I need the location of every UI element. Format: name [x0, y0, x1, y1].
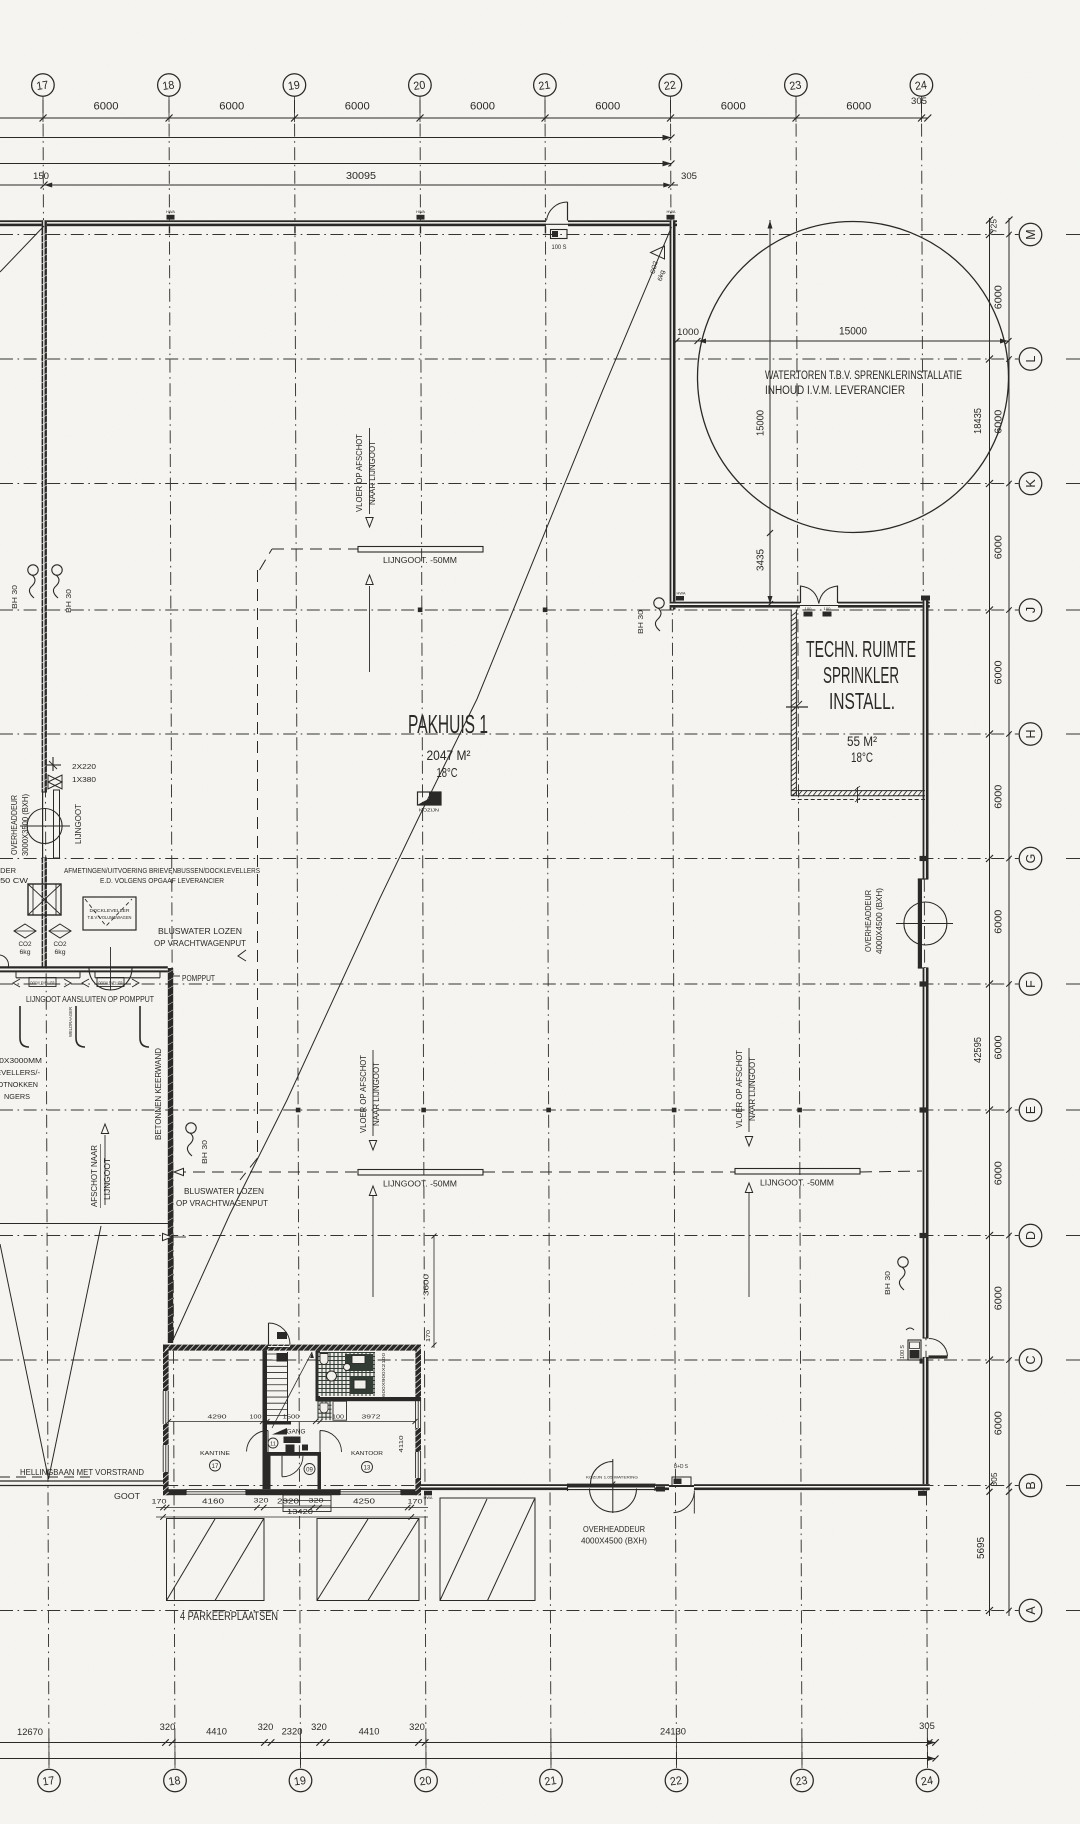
svg-text:2047 M²: 2047 M²: [427, 747, 471, 763]
interior wall kantine east: [263, 1351, 268, 1490]
left facade wall on column 17 (lower segment): [42, 858, 47, 968]
svg-text:VLOER OP AFSCHOT: VLOER OP AFSCHOT: [355, 434, 364, 512]
extension tick col 21 under top dim: [544, 97, 546, 123]
svg-text:6000: 6000: [595, 101, 620, 113]
grid row line F: [0, 983, 1019, 985]
toilet fixtures: [327, 1371, 337, 1381]
sprinkler room insulation dash under south wall: [791, 799, 925, 801]
svg-text:LIJNGOOT. -50MM: LIJNGOOT. -50MM: [383, 555, 457, 565]
svg-text:19: 19: [287, 79, 301, 93]
svg-text:150: 150: [33, 171, 49, 182]
svg-text:A: A: [1024, 1606, 1038, 1615]
svg-text:4160: 4160: [202, 1499, 224, 1506]
grid column line 22: [671, 100, 677, 1768]
column marks row J: [418, 608, 423, 613]
corner diagonal top-left: [0, 226, 44, 272]
BH 30 hook near right wall row D: [898, 1257, 908, 1267]
svg-text:DOCKLEVELLER: DOCKLEVELLER: [31, 980, 55, 985]
AFSCHOT NAAR LIJNGOOT arrow: [104, 1135, 106, 1205]
svg-text:L: L: [1024, 355, 1038, 362]
right dim tick row K: [986, 480, 993, 487]
valve bowtie symbol: [48, 775, 62, 789]
lijngoot bar upper: [358, 547, 483, 553]
grid row line F sheet-edge stub: [1066, 983, 1080, 985]
svg-text:1X380: 1X380: [72, 775, 96, 784]
svg-text:E.D. VOLGENS OPGAAF LEVERANCIE: E.D. VOLGENS OPGAAF LEVERANCIER: [100, 876, 225, 885]
dock door swing arc: [89, 969, 132, 991]
svg-text:BETONNEN KEERWAND: BETONNEN KEERWAND: [153, 1048, 163, 1140]
lijngoot bar beside left door: [54, 790, 60, 858]
svg-text:BH 30: BH 30: [883, 1271, 892, 1295]
bottom dimension line 1: [0, 1742, 936, 1744]
svg-text:24: 24: [914, 79, 928, 93]
office wall hatch: [165, 1345, 171, 1351]
HWA marks bottom wall: [424, 1491, 432, 1496]
svg-text:725: 725: [989, 219, 999, 233]
svg-text:OVERHEADDEUR: OVERHEADDEUR: [583, 1524, 645, 1534]
svg-text:6000: 6000: [993, 1035, 1005, 1059]
svg-text:B+D S: B+D S: [674, 1464, 688, 1470]
svg-text:WELDRAAGER: WELDRAAGER: [68, 1007, 73, 1037]
grid bubble row F right: [1019, 973, 1042, 996]
svg-text:KANTINE: KANTINE: [200, 1451, 230, 1457]
svg-text:B: B: [1024, 1481, 1038, 1489]
dockleveller label boxes: [29, 978, 56, 987]
bottom dimension line 2: [0, 1758, 936, 1760]
grid row line B sheet-edge stub: [1066, 1485, 1080, 1487]
electrical T symbol: [45, 764, 61, 766]
lijngoot bar row D left: [358, 1170, 483, 1176]
svg-text:3435: 3435: [755, 549, 767, 571]
stairs: [264, 1353, 288, 1355]
svg-text:18: 18: [168, 1775, 182, 1789]
svg-text:TECHN. RUIMTE: TECHN. RUIMTE: [806, 636, 916, 662]
dashed line to lijngoot upper: [272, 548, 358, 550]
office left wall windows: [163, 1391, 169, 1424]
grid bubble row G right: [1019, 847, 1042, 870]
office bottom windows: [186, 1489, 246, 1495]
HWA marks row J wall: [676, 596, 684, 601]
extension tick col 18 above bottom bubbles: [174, 1738, 176, 1768]
double door in row J wall: [800, 586, 802, 604]
entrance gap bottom wall: [295, 1491, 316, 1493]
interior dim line office: [169, 1421, 415, 1423]
grid row line L sheet-edge stub: [1066, 358, 1080, 360]
svg-text:22: 22: [669, 1775, 683, 1789]
grid bubble row A right: [1019, 1599, 1042, 1622]
svg-text:21: 21: [544, 1775, 558, 1789]
svg-text:KELDER: KELDER: [0, 866, 17, 875]
svg-text:800X3000MM: 800X3000MM: [0, 1056, 42, 1065]
grid bubble column 23 bottom: [791, 1769, 814, 1792]
grid row line H sheet-edge stub: [1066, 733, 1080, 735]
svg-text:4290: 4290: [208, 1415, 227, 1421]
grid row line D sheet-edge stub: [1066, 1235, 1080, 1237]
svg-text:2X220: 2X220: [72, 762, 96, 771]
sprinkler room west wall (col 23): [790, 610, 792, 796]
grid row line H: [0, 733, 1019, 735]
bottom facade wall: door to SE corner: [694, 1484, 930, 1490]
svg-text:3600: 3600: [424, 1274, 431, 1296]
grid row line C: [0, 1359, 1019, 1361]
svg-text:4110: 4110: [399, 1436, 405, 1453]
grid row line L: [0, 358, 1019, 360]
grid bubble row L right: [1019, 348, 1042, 371]
svg-text:13420: 13420: [287, 1509, 313, 1516]
svg-text:BLUSWATER LOZEN: BLUSWATER LOZEN: [184, 1186, 264, 1196]
svg-text:LIJNGOOT. -50MM: LIJNGOOT. -50MM: [383, 1179, 457, 1189]
dashed gutter line row D: [174, 1171, 358, 1173]
svg-text:INHOUD I.V.M. LEVERANCIER: INHOUD I.V.M. LEVERANCIER: [765, 385, 905, 397]
svg-text:KANTOOR: KANTOOR: [351, 1451, 383, 1457]
svg-text:LIJNGOOT. -50MM: LIJNGOOT. -50MM: [760, 1178, 834, 1188]
wall tie cross on room west wall: [786, 706, 808, 708]
toilet cell below: [318, 1401, 332, 1420]
svg-text:42595: 42595: [973, 1037, 984, 1063]
grid bubble column 19 bottom: [289, 1769, 312, 1792]
svg-text:D: D: [1024, 1231, 1038, 1240]
svg-text:SPRINKLER: SPRINKLER: [823, 662, 899, 688]
svg-text:13: 13: [364, 1466, 371, 1472]
svg-text:6kg: 6kg: [20, 949, 31, 956]
svg-text:170: 170: [408, 1499, 424, 1506]
left facade wall on column 17 (upper segment): [42, 220, 47, 792]
upper right wall on column 22: [670, 220, 676, 609]
lower right wall on column 24 (upper segment): [923, 601, 929, 880]
svg-text:23: 23: [795, 1775, 809, 1789]
vertical dim 15000/3435: [769, 220, 771, 604]
svg-text:VLOER OP AFSCHOT: VLOER OP AFSCHOT: [735, 1050, 744, 1128]
right dim tick row B: [986, 1482, 993, 1489]
svg-text:BH 30: BH 30: [10, 585, 19, 609]
grid row line J sheet-edge stub: [1066, 609, 1080, 611]
office door top wall with swing: [268, 1346, 290, 1348]
svg-text:6000: 6000: [993, 910, 1005, 934]
office right wall windows: [415, 1398, 421, 1428]
svg-text:4250: 4250: [353, 1499, 375, 1506]
extension tick col 17 under top dim: [42, 97, 44, 123]
left wall hatch texture: [42, 233, 47, 236]
extension tick col 24 under top dim: [921, 97, 923, 123]
svg-text:E: E: [1024, 1106, 1038, 1114]
svg-text:J: J: [1024, 607, 1038, 613]
svg-text:18435: 18435: [973, 408, 984, 434]
top dimension line 1 (6000 chain): [0, 117, 928, 119]
svg-text:12670: 12670: [17, 1727, 43, 1738]
svg-text:HWA: HWA: [166, 210, 175, 214]
dashed pit boundary vertical: [257, 570, 259, 1158]
betonnen keerwand (concrete wall col 18): [168, 968, 173, 1343]
svg-text:CO2: CO2: [54, 941, 67, 948]
office outer wall top: [163, 1345, 421, 1351]
up arrow to lijngoot upper: [369, 586, 371, 672]
svg-text:18°C: 18°C: [437, 765, 458, 780]
svg-text:OVERHEADDEUR: OVERHEADDEUR: [863, 890, 873, 952]
right dim ticks at wall faces: [986, 217, 993, 224]
right dim tick row L: [986, 356, 993, 363]
svg-text:6000: 6000: [94, 101, 119, 113]
grid column line 23: [796, 100, 802, 1768]
office dimension line 170/4160/320/2320/320/4250/170: [156, 1507, 428, 1509]
extension tick col 23 above bottom bubbles: [801, 1738, 803, 1768]
grid row line A sheet-edge stub: [1066, 1610, 1080, 1612]
svg-text:EVELLERS/-: EVELLERS/-: [0, 1068, 41, 1077]
vestibule door arc: [282, 1456, 303, 1477]
bottom overhead door swing symbol: [590, 1489, 637, 1513]
svg-text:100: 100: [824, 607, 831, 611]
grid bubble column 22 bottom: [665, 1769, 688, 1792]
svg-text:BH 30: BH 30: [64, 589, 73, 613]
dashed line left of goot: [0, 1476, 95, 1478]
sprinkler room south wall: [791, 790, 925, 792]
grid row line B: [0, 1485, 1019, 1487]
svg-text:AFMETINGEN/UITVOERING BRIEVENB: AFMETINGEN/UITVOERING BRIEVENBUSSEN/DOCK…: [64, 866, 260, 875]
svg-text:600X900X2100: 600X900X2100: [381, 1352, 386, 1397]
svg-text:HWA: HWA: [677, 591, 686, 596]
top dimension line 4 (150 / 30095 / 305): [0, 184, 678, 186]
top facade wall (west segment): [0, 220, 546, 226]
extension tick col 21 above bottom bubbles: [550, 1738, 552, 1768]
office outer wall bottom segments: [163, 1489, 186, 1495]
grid bubble row E right: [1019, 1099, 1042, 1122]
svg-text:4000X4500 (BXH): 4000X4500 (BXH): [581, 1536, 647, 1546]
grid row line K sheet-edge stub: [1066, 483, 1080, 485]
svg-text:BH 30: BH 30: [200, 1140, 209, 1164]
svg-text:DOCKLEVELLER: DOCKLEVELLER: [90, 908, 131, 913]
right dim tick row M: [986, 231, 993, 238]
svg-text:G: G: [1024, 854, 1038, 864]
CO2 diamonds: [14, 924, 36, 938]
svg-text:19: 19: [293, 1775, 307, 1789]
extension tick col 19 under top dim: [294, 97, 296, 123]
svg-text:6000: 6000: [345, 101, 370, 113]
grid row line C sheet-edge stub: [1066, 1359, 1080, 1361]
entrance porch steps: [283, 1495, 331, 1512]
dock edge double line: [0, 966, 168, 968]
svg-text:320: 320: [258, 1722, 274, 1732]
svg-text:320: 320: [160, 1722, 176, 1732]
grid column line 18: [169, 100, 175, 1768]
grid row line D: [0, 1235, 1019, 1237]
svg-text:CVA 50 CW: CVA 50 CW: [0, 876, 29, 885]
svg-text:4 PARKEERPLAATSEN: 4 PARKEERPLAATSEN: [180, 1609, 278, 1623]
svg-text:305: 305: [681, 171, 697, 182]
svg-text:17: 17: [42, 1775, 56, 1789]
extension tick col 22 under top dim: [670, 97, 672, 123]
right dim tick row E: [986, 1107, 993, 1114]
svg-text:NGERS: NGERS: [4, 1092, 30, 1101]
grid bubble column 22 top: [659, 74, 682, 97]
right dim tick row G: [986, 855, 993, 862]
svg-text:5695: 5695: [976, 1537, 987, 1559]
BH 30 drain hooks on left wall: [28, 565, 38, 575]
overhead door symbol circle: [904, 902, 947, 945]
grid bubble column 17 top: [32, 74, 55, 97]
svg-text:HWA: HWA: [424, 1495, 433, 1500]
top dimension line 3: [0, 163, 672, 165]
svg-text:100: 100: [805, 607, 812, 611]
grid bubble row D right: [1019, 1224, 1042, 1247]
wall row J east of double door: [838, 602, 930, 608]
hollow arrow row D at keerwand: [163, 1233, 173, 1240]
grid bubble row B right: [1019, 1474, 1042, 1497]
column marks row E: [296, 1108, 301, 1113]
vestibule walls: [267, 1452, 321, 1456]
svg-text:320: 320: [311, 1722, 327, 1732]
bottom facade wall: office to overhead door: [421, 1484, 567, 1490]
svg-text:55 M²: 55 M²: [847, 734, 877, 749]
right vertical dimension line inner: [989, 218, 991, 1616]
grid column line 17: [43, 100, 49, 1768]
svg-text:2320: 2320: [282, 1727, 303, 1738]
svg-text:30095: 30095: [346, 171, 376, 182]
BH 30 hook near row J corner: [654, 598, 664, 608]
door frame marks inside sprinkler room: [804, 612, 813, 617]
svg-text:1500: 1500: [283, 1415, 300, 1421]
water tower circle: [698, 222, 1009, 533]
grid bubble column 17 bottom: [38, 1769, 61, 1792]
office dimension line 13420: [156, 1516, 428, 1518]
svg-text:305: 305: [989, 1472, 999, 1486]
svg-text:20: 20: [413, 79, 427, 93]
svg-text:OP VRACHTWAGENPUT: OP VRACHTWAGENPUT: [176, 1198, 268, 1208]
BH 30 hook at keerwand row E: [186, 1123, 196, 1133]
grid bubble column 24 bottom: [916, 1769, 939, 1792]
svg-text:PAKHUIS 1: PAKHUIS 1: [408, 709, 488, 739]
goot double line: [0, 1480, 169, 1482]
right vertical dimension line outer: [1008, 218, 1010, 1616]
svg-text:LIJNGOOT AANSLUITEN OP POMPPUT: LIJNGOOT AANSLUITEN OP POMPPUT: [26, 994, 154, 1004]
svg-text:320: 320: [254, 1498, 270, 1505]
grid column line 24: [922, 100, 928, 1768]
grid bubble row H right: [1019, 723, 1042, 746]
interior wall gang east / toilets west: [316, 1351, 321, 1402]
svg-text:18°C: 18°C: [851, 750, 873, 765]
svg-text:6000: 6000: [993, 660, 1005, 684]
grid row line M sheet-edge stub: [1066, 234, 1080, 236]
svg-text:24130: 24130: [660, 1727, 686, 1738]
svg-text:C: C: [1024, 1355, 1038, 1364]
svg-text:4410: 4410: [359, 1727, 380, 1738]
extension tick col 22 above bottom bubbles: [675, 1738, 677, 1768]
small partial circle at sheet edge: [0, 955, 8, 968]
door threshold top wall: [546, 223, 568, 225]
grid row line M: [0, 234, 1019, 236]
lijngoot bar row D right: [735, 1169, 860, 1175]
grid bubble column 21 top: [534, 74, 557, 97]
svg-text:15000: 15000: [755, 410, 767, 436]
HWA tick marks under top wall at columns: [168, 227, 170, 234]
svg-text:11: 11: [270, 1442, 276, 1448]
grid bubble column 24 top: [910, 74, 933, 97]
grid column line 19: [295, 100, 301, 1768]
svg-text:6000: 6000: [470, 101, 495, 113]
top facade wall (east segment): [568, 220, 677, 226]
svg-text:6000: 6000: [993, 535, 1005, 559]
svg-text:WATERTOREN T.B.V. SPRENKLERINS: WATERTOREN T.B.V. SPRENKLERINSTALLATIE: [765, 370, 962, 382]
grid bubble column 18 top: [158, 74, 181, 97]
parking group 2: [317, 1519, 419, 1601]
overhead door circle symbol left: [27, 809, 62, 844]
door 100S in top wall: leaf and swing: [567, 202, 569, 221]
extension tick col 23 under top dim: [795, 97, 797, 123]
extension tick col 20 under top dim: [419, 97, 421, 123]
dark door mats vestibule: [284, 1437, 301, 1444]
door 100S in right wall at row C: [923, 1337, 929, 1339]
svg-text:F: F: [1024, 980, 1038, 988]
svg-text:OOTNOKKEN: OOTNOKKEN: [0, 1080, 38, 1089]
grid row line G sheet-edge stub: [1066, 858, 1080, 860]
HWA roof drain marks on top wall: [167, 215, 175, 220]
grid bubble row M right: [1019, 223, 1042, 246]
overhead door 3000x3500 in left wall: [42, 791, 47, 793]
svg-text:17: 17: [212, 1464, 219, 1470]
svg-text:6kg: 6kg: [55, 949, 66, 956]
office top door mat: [277, 1332, 287, 1339]
long diagonal slope line across hall: [173, 227, 672, 1340]
grid row line A: [0, 1610, 1019, 1612]
bottom overhead door panel: [568, 1484, 656, 1488]
grid bubble column 20 bottom: [415, 1769, 438, 1792]
extension tick col 18 under top dim: [168, 97, 170, 123]
grid column line 20: [420, 100, 426, 1768]
svg-text:GANG: GANG: [287, 1430, 306, 1436]
svg-text:6000: 6000: [993, 1286, 1005, 1310]
grid bubble row C right: [1019, 1349, 1042, 1372]
parking group 1: [167, 1519, 265, 1601]
center tick room south wall: [857, 787, 859, 803]
svg-text:09: 09: [306, 1468, 313, 1474]
svg-text:1000: 1000: [677, 327, 699, 338]
hellingbaan top edge: [0, 1223, 169, 1225]
toilet tiles: [318, 1353, 375, 1397]
office outer wall left: [163, 1345, 169, 1496]
right dim tick row A: [986, 1607, 993, 1614]
svg-text:GOOT: GOOT: [114, 1491, 140, 1501]
svg-text:4410: 4410: [206, 1727, 227, 1738]
grid bubble column 21 bottom: [540, 1769, 563, 1792]
right dim tick row D: [986, 1232, 993, 1239]
svg-text:23: 23: [789, 79, 803, 93]
grid row line E: [0, 1109, 1019, 1111]
svg-text:AFSCHOT NAAR: AFSCHOT NAAR: [90, 1145, 99, 1207]
svg-text:BLUSWATER LOZEN: BLUSWATER LOZEN: [158, 926, 242, 936]
svg-text:OVERHEADDEUR: OVERHEADDEUR: [9, 795, 19, 855]
svg-text:VLOER OP AFSCHOT: VLOER OP AFSCHOT: [359, 1055, 368, 1133]
svg-text:320: 320: [409, 1722, 425, 1732]
svg-text:2320: 2320: [277, 1499, 299, 1506]
svg-text:15000: 15000: [839, 326, 867, 338]
grid row line J: [0, 609, 1019, 611]
svg-text:24: 24: [920, 1775, 934, 1789]
svg-text:170: 170: [152, 1499, 168, 1506]
right dim tick row F: [986, 981, 993, 988]
svg-text:100: 100: [250, 1415, 262, 1421]
svg-text:305: 305: [911, 96, 927, 107]
svg-text:INSTALL.: INSTALL.: [829, 688, 895, 714]
svg-text:T.B.V. VOLUMEWAGEN: T.B.V. VOLUMEWAGEN: [88, 915, 132, 920]
section marker symbol: [418, 792, 442, 805]
grid bubble column 23 top: [785, 74, 808, 97]
svg-text:18: 18: [162, 79, 176, 93]
extension tick col 24 above bottom bubbles: [926, 1738, 928, 1768]
top dimension line 2: [0, 137, 672, 139]
grid bubble row J right: [1019, 599, 1042, 622]
office outer wall right: [415, 1345, 421, 1496]
dim line 1000/15000 at water tower: [677, 340, 1009, 342]
svg-text:M: M: [1024, 229, 1038, 239]
svg-text:320: 320: [309, 1498, 325, 1505]
